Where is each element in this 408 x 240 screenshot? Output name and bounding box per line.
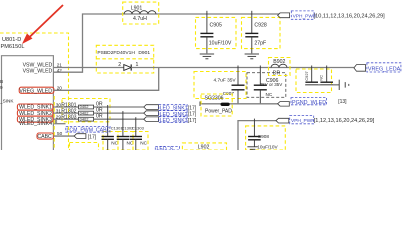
net tie SG2306 pill (201, 94, 232, 116)
svg-text:B: B (0, 79, 3, 84)
svg-text:[1,12,13,16,20,24,26,29]: [1,12,13,16,20,24,26,29] (314, 118, 375, 124)
svg-text:R1303: R1303 (61, 115, 76, 121)
resistor R1303 (61, 114, 103, 122)
capacitor NC next to C927 (319, 66, 333, 85)
yellow box below CABC (70, 143, 99, 152)
svg-text:[17]: [17] (188, 112, 197, 118)
svg-text:25V or 35V: 25V or 35V (260, 82, 283, 87)
svg-text:10uF/10V: 10uF/10V (257, 145, 278, 150)
ic U801-D body (2, 56, 54, 150)
svg-text:0R: 0R (96, 108, 103, 114)
yellow dashed edge along ic pins (53, 96, 55, 150)
svg-text:Power_PAD: Power_PAD (205, 108, 232, 114)
svg-text:2: 2 (118, 62, 121, 68)
wire CABC pin (54, 135, 75, 137)
svg-text:4.7uF 35V: 4.7uF 35V (214, 78, 237, 84)
net tag VPH_PWR lower (276, 116, 375, 125)
svg-text:VSW_WLED: VSW_WLED (23, 62, 53, 68)
resistor R1301 (61, 101, 103, 109)
svg-text:C928: C928 (254, 23, 267, 29)
wire diode cathode to output tag (131, 67, 354, 69)
svg-text:0402: 0402 (80, 116, 90, 121)
capacitor C905 (196, 11, 237, 54)
svg-text:[13]: [13] (338, 99, 347, 105)
pin name WLED_SINK2 red box (17, 110, 53, 117)
wire VSW pin21 to diode anode (54, 67, 124, 69)
svg-text:VREG_LEDA: VREG_LEDA (368, 67, 401, 73)
svg-text:0R: 0R (96, 101, 103, 107)
net tag VREG_LEDA (354, 63, 401, 73)
svg-text:C927: C927 (304, 70, 309, 80)
ferrite bead B902 (269, 58, 291, 77)
diode D901 (118, 62, 138, 71)
capacitor C906 (NC, gray dashed box) (247, 66, 286, 104)
capacitor C927 (304, 66, 318, 85)
ground right-pointing (339, 80, 349, 90)
resistor group yellow box (62, 99, 110, 122)
svg-text:WLED_SINK4: WLED_SINK4 (19, 121, 52, 127)
pin name WLED_SINK1 red box (17, 104, 53, 111)
capacitor C1303 (NC) (130, 117, 148, 150)
svg-text:[17]: [17] (88, 135, 97, 141)
pin name WLED_SINK3 red box (17, 116, 53, 123)
pin stub WLED_SINK4 (54, 123, 66, 125)
svg-text:PM6150L: PM6150L (1, 44, 25, 50)
svg-text:[17]: [17] (188, 118, 197, 124)
svg-text:21: 21 (57, 62, 63, 67)
inductor L901 (123, 2, 159, 24)
diode D901 label yellow box (96, 45, 153, 73)
svg-text:PGND_WLED: PGND_WLED (292, 100, 326, 106)
wire WLED_SINK2 row (54, 112, 144, 114)
pin name VREG_WLED red box (19, 87, 54, 94)
svg-text:0402: 0402 (80, 110, 90, 115)
wire VSW pin42 (54, 68, 83, 73)
ground for C905 (200, 54, 214, 59)
wire VREG pin20 feedback (54, 68, 159, 91)
inductor L902 (cropped) (182, 143, 226, 151)
svg-text:R1302: R1302 (61, 109, 76, 115)
svg-text:VSW_WLED: VSW_WLED (23, 69, 53, 75)
capacitor C1302 (NC) (117, 111, 134, 150)
svg-text:NC: NC (319, 75, 324, 81)
svg-text:DR: DR (273, 71, 281, 77)
wire WLED_SINK3 row (54, 118, 144, 120)
svg-text:LCM_PWM_CABC: LCM_PWM_CABC (67, 128, 111, 134)
svg-text:D901: D901 (138, 50, 150, 56)
svg-text:20: 20 (57, 85, 63, 90)
wire WLED_SINK1 row (54, 106, 144, 108)
ground for C928 (245, 54, 259, 59)
capacitor C1301 (NC) (102, 105, 124, 150)
wire cap bottoms to right ground (306, 84, 339, 86)
svg-text:NC: NC (266, 92, 273, 97)
ground rail PGND_WLED (200, 102, 278, 107)
svg-text:[17]: [17] (188, 106, 197, 112)
svg-text:NC: NC (140, 141, 147, 146)
ic U801-D highlight yellow box (0, 33, 69, 152)
svg-text:VPH_PWR: VPH_PWR (291, 118, 315, 124)
svg-text:4.7uH: 4.7uH (133, 16, 147, 22)
svg-text:L902: L902 (198, 145, 210, 150)
svg-text:LED_S: LED_S (157, 147, 174, 151)
svg-text:[10,11,12,13,16,20,24,26,29]: [10,11,12,13,16,20,24,26,29] (314, 14, 386, 20)
svg-text:27pF: 27pF (254, 41, 266, 47)
svg-text:PSBD2FD40V1H: PSBD2FD40V1H (97, 50, 135, 56)
capacitor C927 group yellow box (296, 69, 332, 93)
net tag PGND_WLED (278, 98, 348, 107)
capacitor C928 (242, 11, 281, 54)
net tag LED_SINK3 (144, 117, 197, 124)
label PSBD2FD40V1H D901 (97, 50, 150, 56)
svg-text:10uF/10V: 10uF/10V (209, 41, 232, 47)
capacitor C908 (246, 119, 286, 150)
diode D901 symbol yellow box divider (96, 58, 153, 60)
wire switch node riser to L901 (83, 14, 282, 68)
svg-text:CABC: CABC (37, 134, 52, 140)
svg-text:C1303: C1303 (132, 126, 145, 131)
svg-text:_SINK: _SINK (0, 99, 14, 104)
svg-text:R1301: R1301 (61, 102, 76, 108)
wire VPH_PWR lower branch (238, 121, 276, 150)
svg-text:SG2306: SG2306 (205, 96, 224, 102)
capacitor C907 yellow box (194, 72, 246, 99)
svg-text:C908: C908 (258, 134, 270, 139)
net tag LED_SINK2 (144, 111, 197, 118)
resistor R1302 (61, 108, 103, 116)
svg-text:0402: 0402 (80, 104, 90, 109)
cropped blue net label bottom (155, 146, 179, 152)
svg-text:50: 50 (57, 131, 63, 136)
svg-text:C905: C905 (210, 23, 223, 29)
capacitor C907 (214, 66, 245, 104)
label U801-D PM6150L (1, 37, 25, 50)
svg-text:U801-D: U801-D (2, 37, 21, 43)
svg-text:VREG_WLED: VREG_WLED (19, 89, 52, 95)
pin name CABC red box (37, 133, 54, 140)
svg-text:0R: 0R (96, 114, 103, 120)
net tag LCM_PWM_CABC (74, 134, 97, 141)
svg-text:LED_SINK3: LED_SINK3 (160, 118, 188, 124)
net label LCM_PWM_CABC (66, 126, 111, 133)
red callout arrow (22, 5, 63, 44)
svg-text:9: 9 (0, 85, 3, 90)
net tag LED_SINK1 (144, 105, 197, 112)
net tag VPH_PWR top (278, 11, 386, 20)
